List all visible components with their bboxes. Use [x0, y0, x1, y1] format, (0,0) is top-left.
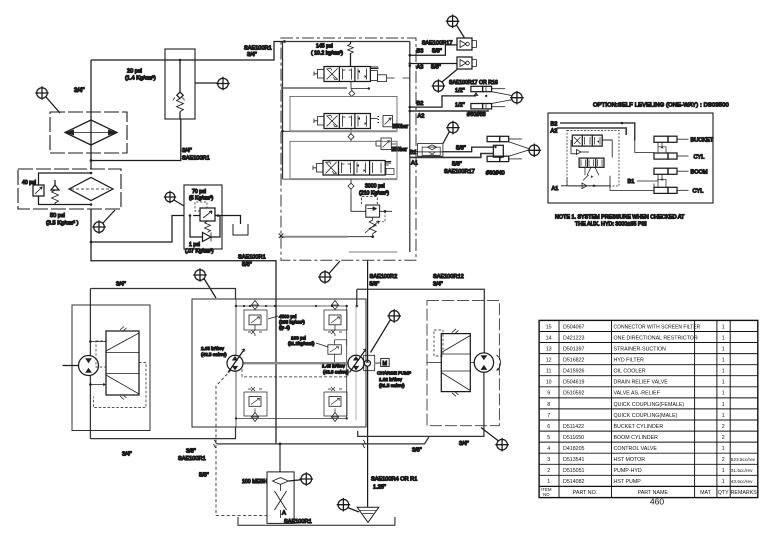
- test point TP3: [92, 220, 106, 234]
- test point TP14: [300, 472, 314, 486]
- svg-text:DRAIN RELIEF VALVE: DRAIN RELIEF VALVE: [614, 380, 669, 386]
- wire P supply top inside: [285, 41, 410, 43]
- svg-text:D511650: D511650: [563, 435, 584, 441]
- boom cylinder center block: [493, 145, 503, 157]
- wire valve1 below check: [351, 82, 369, 89]
- svg-text:9: 9: [547, 391, 550, 397]
- valve1 right compensator: [370, 71, 377, 81]
- svg-text:VALVE AS.-RELIEF: VALVE AS.-RELIEF: [614, 391, 661, 397]
- wire B1 to boom cyl: [443, 147, 494, 152]
- right motor dashed pilot: [434, 330, 443, 356]
- boom cylinder top: [487, 136, 500, 141]
- svg-text:2: 2: [722, 424, 725, 430]
- svg-text:15: 15: [546, 324, 552, 330]
- spool valve 3 aux section: [323, 161, 385, 176]
- quick coupling male 1: [457, 38, 472, 50]
- motor shaft arc: [497, 355, 501, 371]
- svg-text:12: 12: [546, 358, 552, 364]
- relief cluster TL: [244, 301, 267, 337]
- sl cyl1 bottom: [654, 153, 668, 159]
- svg-text:OPTION:SELF LEVELING (ONE-WAY): OPTION:SELF LEVELING (ONE-WAY) : DS03500: [593, 103, 729, 109]
- pump inner bus left: [235, 299, 237, 427]
- svg-text:QUICK COUPLING(FEMALE): QUICK COUPLING(FEMALE): [614, 402, 685, 408]
- check diamond below valve3: [350, 179, 352, 183]
- quick coupling male 2: [457, 57, 472, 69]
- bucket cylinder top: [471, 86, 483, 91]
- right motor displacement unit: [441, 334, 470, 392]
- svg-text:1: 1: [547, 479, 550, 485]
- svg-text:1: 1: [722, 413, 725, 419]
- svg-text:CYL: CYL: [693, 189, 704, 195]
- sl check valve left: [571, 150, 581, 155]
- sl spool valve 2: [579, 158, 604, 167]
- wire HST loop top: [90, 289, 235, 300]
- svg-text:B2: B2: [417, 101, 424, 107]
- svg-text:B1: B1: [628, 179, 635, 185]
- tank bracket: [238, 517, 395, 525]
- hst pump D514082 block: [192, 299, 366, 427]
- svg-text:5: 5: [547, 435, 550, 441]
- pump circle left: [227, 355, 243, 371]
- svg-text:SAE100R1: SAE100R1: [178, 456, 206, 462]
- pump main line gray: [243, 362, 349, 364]
- svg-text:5/8": 5/8": [456, 146, 466, 152]
- hst motor right block dashed: [427, 301, 499, 426]
- svg-text:HYD FILTER: HYD FILTER: [614, 358, 645, 364]
- filter bypass relief: [39, 173, 92, 185]
- spool valve 1 boom section: [324, 67, 370, 82]
- motor shaft stub: [63, 365, 79, 367]
- svg-text:3/8": 3/8": [412, 448, 422, 454]
- svg-text:2: 2: [722, 457, 725, 463]
- check diamond below valve2: [350, 129, 352, 134]
- svg-text:1.92 in³/rev: 1.92 in³/rev: [379, 377, 403, 382]
- bucket cylinder bottom: [471, 104, 483, 109]
- svg-text:A2: A2: [551, 129, 558, 135]
- bypass gray line v1: [283, 87, 348, 89]
- svg-text:SAE100R1: SAE100R1: [244, 46, 272, 52]
- test point TP7: [446, 14, 460, 28]
- inner dotted box: [567, 130, 619, 186]
- svg-text:460: 460: [650, 497, 664, 507]
- connector with screen filter D504067: [418, 144, 443, 157]
- wire port B3: [410, 45, 457, 55]
- pump case drain dashed: [242, 369, 348, 377]
- svg-text:1: 1: [722, 479, 725, 485]
- motor tap wires: [90, 342, 106, 385]
- svg-text:BUCKET: BUCKET: [691, 138, 714, 144]
- svg-text:5/8": 5/8": [452, 162, 462, 168]
- svg-text:3/4": 3/4": [433, 282, 443, 288]
- svg-text:(210 Kg/cm²): (210 Kg/cm²): [359, 191, 389, 197]
- svg-text:250bar: 250bar: [392, 147, 408, 153]
- svg-text:A3: A3: [417, 65, 424, 71]
- svg-text:(3.5 Kg/cm² ): (3.5 Kg/cm² ): [46, 221, 78, 227]
- case drain dashed to strainer: [216, 370, 267, 515]
- pump circle right: [348, 355, 364, 371]
- svg-text:(43.5 cc/rev): (43.5 cc/rev): [201, 352, 227, 357]
- charge relief: [328, 345, 341, 354]
- svg-text:BUCKET CYLINDER: BUCKET CYLINDER: [614, 424, 664, 430]
- svg-text:3: 3: [547, 457, 550, 463]
- svg-text:SAE100R2: SAE100R2: [370, 274, 398, 280]
- svg-text:A: A: [282, 511, 286, 517]
- wire tank out SAE100R2: [367, 260, 369, 507]
- svg-text:70 psi: 70 psi: [192, 189, 206, 195]
- svg-text:1: 1: [722, 358, 725, 364]
- svg-text:PART NAME: PART NAME: [638, 490, 669, 496]
- svg-text:HST PUMP: HST PUMP: [614, 479, 642, 485]
- test point TP1: [35, 86, 49, 100]
- svg-text:2: 2: [547, 468, 550, 474]
- check valve 1psi: [190, 216, 202, 238]
- svg-text:250bar: 250bar: [393, 124, 409, 130]
- svg-text:SAE100R17: SAE100R17: [444, 169, 475, 175]
- svg-text:QUICK COUPLING(MALE): QUICK COUPLING(MALE): [614, 413, 678, 419]
- pump manifold bottom: [236, 417, 347, 419]
- svg-text:2: 2: [722, 435, 725, 441]
- wire right motor down: [358, 372, 484, 436]
- svg-text:1: 1: [722, 446, 725, 452]
- svg-text:3/4": 3/4": [74, 88, 84, 94]
- port relief 250bar second: [381, 138, 391, 150]
- suction strainer triangle: [357, 507, 379, 522]
- wire B2 to cyl1: [634, 139, 635, 141]
- svg-text:5/8": 5/8": [432, 48, 442, 54]
- wire port B1: [410, 151, 418, 153]
- svg-text:(43.5 cc/rev): (43.5 cc/rev): [323, 370, 349, 375]
- svg-text:3/4": 3/4": [182, 148, 192, 154]
- test point TP4: [164, 191, 176, 203]
- svg-text:3/4": 3/4": [122, 452, 132, 458]
- svg-text:1.25": 1.25": [373, 485, 386, 491]
- svg-text:A2: A2: [418, 114, 425, 120]
- svg-text:4500 psi: 4500 psi: [279, 314, 296, 319]
- svg-text:7: 7: [547, 413, 550, 419]
- svg-text:5/8": 5/8": [370, 282, 380, 288]
- hst motor D513541 box: [72, 305, 150, 431]
- valve1 left actuator: [318, 70, 325, 79]
- svg-text:CONNECTOR WITH SCREEN FILTER: CONNECTOR WITH SCREEN FILTER: [614, 324, 701, 330]
- svg-text:PUMP-HYD: PUMP-HYD: [614, 468, 642, 474]
- drain relief valve D504619 box: [165, 49, 195, 119]
- wire left pilot bus: [282, 42, 284, 180]
- svg-text:5/8": 5/8": [242, 262, 252, 268]
- sl cyl1 link: [658, 142, 666, 153]
- wire valve1 out to bus: [387, 77, 410, 79]
- parts table frame: [539, 320, 758, 497]
- svg-text:(295 kg/cm²): (295 kg/cm²): [279, 320, 305, 325]
- svg-text:6: 6: [547, 424, 550, 430]
- wire port A3: [410, 63, 457, 65]
- motor displacement unit: [106, 331, 139, 395]
- svg-text:D421223: D421223: [563, 335, 585, 341]
- svg-text:20 psi: 20 psi: [127, 69, 142, 75]
- svg-text:D501397: D501397: [563, 347, 585, 353]
- svg-text:D516822: D516822: [563, 358, 585, 364]
- svg-text:10: 10: [546, 380, 552, 386]
- wire TP3 leader: [103, 210, 115, 223]
- svg-text:BOOM: BOOM: [691, 170, 708, 176]
- node junction cooler/check return: [90, 159, 93, 162]
- svg-text:160 psi: 160 psi: [291, 336, 306, 341]
- svg-text:1: 1: [722, 335, 725, 341]
- relief valve element: [200, 208, 215, 221]
- svg-text:14: 14: [546, 335, 552, 341]
- svg-text:STRAINER-SUCTION: STRAINER-SUCTION: [614, 347, 667, 353]
- svg-text:( 10.2 kg/cm²): ( 10.2 kg/cm²): [311, 51, 343, 57]
- svg-text:8: 8: [547, 402, 550, 408]
- subbox valve3: [290, 141, 397, 179]
- wire HST loop left: [89, 289, 91, 439]
- svg-text:523.5cc/rev: 523.5cc/rev: [731, 457, 756, 462]
- wires below spool2: [585, 167, 599, 175]
- svg-text:REMARKS: REMARKS: [731, 490, 758, 496]
- svg-text:NOTE 1. SYSTEM PRESSURE WHEN C: NOTE 1. SYSTEM PRESSURE WHEN CHECKED AT: [555, 215, 685, 221]
- relief cluster BR: [324, 387, 347, 422]
- svg-text:1: 1: [722, 324, 725, 330]
- svg-text:11: 11: [546, 369, 552, 375]
- test point TP10: [446, 121, 460, 135]
- svg-text:(.07 Kg/cm²): (.07 Kg/cm²): [185, 249, 214, 255]
- bypass check spring: [51, 185, 59, 190]
- control valve D418205 boundary: [281, 38, 416, 260]
- svg-text:1/2": 1/2": [455, 88, 465, 94]
- pump inner bus right: [346, 306, 348, 418]
- oil cooler D415926: [50, 112, 127, 153]
- svg-text:1: 1: [722, 369, 725, 375]
- valve as relief D510592 box 70psi: [184, 185, 222, 249]
- svg-text:QTY: QTY: [718, 490, 729, 496]
- svg-text:1: 1: [722, 468, 725, 474]
- svg-text:BOOM CYLINDER: BOOM CYLINDER: [614, 435, 659, 441]
- svg-text:A1: A1: [552, 186, 559, 192]
- test point TP15: [337, 498, 351, 512]
- svg-text:43.5cc/rev: 43.5cc/rev: [731, 479, 753, 484]
- svg-text:100 MESH: 100 MESH: [242, 479, 267, 485]
- svg-text:4: 4: [547, 446, 550, 452]
- svg-text:THE AUX. HYD: 3000±35 PSI: THE AUX. HYD: 3000±35 PSI: [575, 222, 647, 228]
- test point TP8: [432, 79, 446, 93]
- wire relief to tank: [222, 216, 241, 225]
- svg-text:1: 1: [722, 347, 725, 353]
- svg-text:(31.5 cc/rev): (31.5 cc/rev): [379, 383, 405, 388]
- svg-text:3/4": 3/4": [459, 441, 469, 447]
- svg-text:1 psi: 1 psi: [189, 242, 200, 248]
- svg-text:A1: A1: [411, 161, 418, 167]
- wire TP1 leader: [46, 97, 60, 113]
- svg-text:D418205: D418205: [563, 446, 585, 452]
- svg-text:D504067: D504067: [563, 324, 585, 330]
- svg-text:1: 1: [722, 380, 725, 386]
- svg-text:SAE100R1: SAE100R1: [182, 156, 210, 162]
- svg-text:(1.4 Kg/cm²): (1.4 Kg/cm²): [125, 76, 156, 82]
- option box: [548, 113, 713, 203]
- wire to TP2: [195, 82, 217, 84]
- subbox valve2: [290, 96, 397, 131]
- svg-text:13: 13: [546, 347, 552, 353]
- svg-text:CYL: CYL: [694, 155, 705, 161]
- strainer suction D501397 box: [267, 472, 294, 524]
- svg-text:CONTROL VALVE: CONTROL VALVE: [614, 446, 658, 452]
- svg-text:D510592: D510592: [563, 391, 585, 397]
- wire to strainer: [279, 444, 281, 472]
- boom cylinder bottom: [487, 156, 500, 161]
- svg-text:B2: B2: [551, 122, 558, 128]
- svg-text:PART NO.: PART NO.: [573, 490, 597, 496]
- node top supply junction: [283, 40, 286, 43]
- svg-text:D415926: D415926: [563, 369, 585, 375]
- svg-text:SAE100R17 OR R16: SAE100R17 OR R16: [449, 80, 498, 86]
- drain gray line: [281, 236, 348, 238]
- sl spool valve 1: [572, 135, 602, 146]
- wire filter to return main: [91, 209, 276, 444]
- svg-text:3/8": 3/8": [186, 449, 196, 455]
- tank symbol: [233, 224, 248, 235]
- svg-text:SAE100R1: SAE100R1: [284, 519, 312, 525]
- wire spool1 to cyl: [602, 139, 612, 141]
- pump manifold top: [236, 305, 347, 307]
- svg-text:(5 Kg/cm²): (5 Kg/cm²): [189, 196, 213, 202]
- svg-text:D515051: D515051: [563, 468, 585, 474]
- right motor circle: [474, 353, 493, 372]
- filter element diamond: [69, 178, 113, 201]
- svg-text:(tp 4): (tp 4): [279, 325, 290, 330]
- wire port A2 heavy: [410, 110, 488, 111]
- svg-text:CHARGE PUMP: CHARGE PUMP: [377, 371, 411, 376]
- svg-text:SAE100R17: SAE100R17: [422, 40, 453, 46]
- svg-text:SAE100R12: SAE100R12: [433, 274, 464, 280]
- svg-text:D514082: D514082: [563, 479, 585, 485]
- svg-text:50 psi: 50 psi: [50, 213, 65, 219]
- svg-text:SAE100R4 OR R1: SAE100R4 OR R1: [371, 477, 417, 483]
- svg-text:M: M: [383, 361, 388, 367]
- test point TP13: [495, 438, 509, 452]
- svg-text:3/4": 3/4": [247, 52, 257, 58]
- wire drain relief out: [91, 119, 181, 161]
- wire SAE100R12 top: [357, 289, 485, 353]
- svg-text:5/8": 5/8": [199, 473, 209, 479]
- motor circle: [79, 356, 99, 376]
- svg-text:1: 1: [722, 402, 725, 408]
- svg-text:3/4": 3/4": [116, 282, 126, 288]
- svg-text:D513541: D513541: [563, 457, 585, 463]
- test point TP11: [528, 144, 542, 158]
- port relief B2 250bar: [370, 118, 377, 120]
- svg-text:#60#40: #60#40: [486, 171, 505, 177]
- svg-text:2.65 in³/rev: 2.65 in³/rev: [201, 346, 225, 351]
- test point TP2: [216, 77, 230, 91]
- check valve in drain relief: [179, 60, 181, 92]
- svg-text:HST MOTOR: HST MOTOR: [614, 457, 646, 463]
- svg-text:31.5cc/rev: 31.5cc/rev: [731, 468, 753, 473]
- svg-text:D511422: D511422: [563, 424, 584, 430]
- wire branch to 70psi relief: [91, 216, 184, 243]
- wire right port bus: [409, 42, 411, 253]
- relief cluster BL: [244, 387, 267, 422]
- wire top supply from cooler riser to valve block: [91, 42, 285, 61]
- svg-text:MAT: MAT: [700, 490, 712, 496]
- svg-text:145 psi: 145 psi: [316, 44, 333, 50]
- spool valve 2 bucket section: [324, 114, 370, 129]
- charge pump: [364, 355, 375, 370]
- test point TP12: [387, 309, 401, 323]
- svg-text:3000 psi: 3000 psi: [365, 184, 385, 190]
- svg-text:5/8": 5/8": [431, 65, 441, 71]
- wire A2 heavy: [557, 128, 626, 135]
- wire B2: [560, 123, 635, 140]
- hyd filter D516822 dashed box: [18, 169, 121, 209]
- table rows: [546, 324, 552, 485]
- svg-text:1.45 in³/rev: 1.45 in³/rev: [322, 364, 346, 369]
- test point TP5: [193, 268, 207, 282]
- svg-text:ONE DIRECTIONAL RESTRICTOR: ONE DIRECTIONAL RESTRICTOR: [614, 335, 698, 341]
- wire B1 to boom: [637, 180, 654, 182]
- sl cyl bucket rod: [654, 136, 668, 142]
- motor pilot dashed: [96, 341, 106, 367]
- wire port A1 heavy: [410, 154, 494, 158]
- main relief valve: [361, 197, 377, 205]
- test point TP9: [510, 91, 524, 105]
- wire port B2: [410, 96, 476, 107]
- sl boom link: [658, 174, 666, 187]
- wire cooler riser vertical: [90, 60, 92, 169]
- wire A1: [561, 176, 610, 186]
- svg-text:D504619: D504619: [563, 380, 585, 386]
- svg-text:1: 1: [722, 391, 725, 397]
- inner bottom line: [349, 251, 398, 253]
- relief cluster TR: [324, 301, 347, 337]
- svg-text:OIL COOLER: OIL COOLER: [614, 369, 646, 375]
- svg-text:1/2": 1/2": [455, 103, 465, 109]
- suction collector line: [217, 437, 429, 444]
- svg-text:B3: B3: [417, 48, 424, 54]
- svg-text:NO: NO: [543, 492, 550, 497]
- svg-text:B1: B1: [410, 150, 417, 156]
- svg-text:SAE100R1: SAE100R1: [238, 255, 266, 261]
- test point TP6: [318, 270, 332, 284]
- motor M box: [381, 359, 390, 367]
- svg-text:(11.3kg/cm2): (11.3kg/cm2): [288, 341, 315, 346]
- svg-text:#60#38: #60#38: [467, 112, 486, 118]
- sl cyl boom rods: [654, 168, 668, 174]
- inlet orifice spring: [350, 42, 352, 67]
- wire HST loop bottom: [90, 427, 235, 439]
